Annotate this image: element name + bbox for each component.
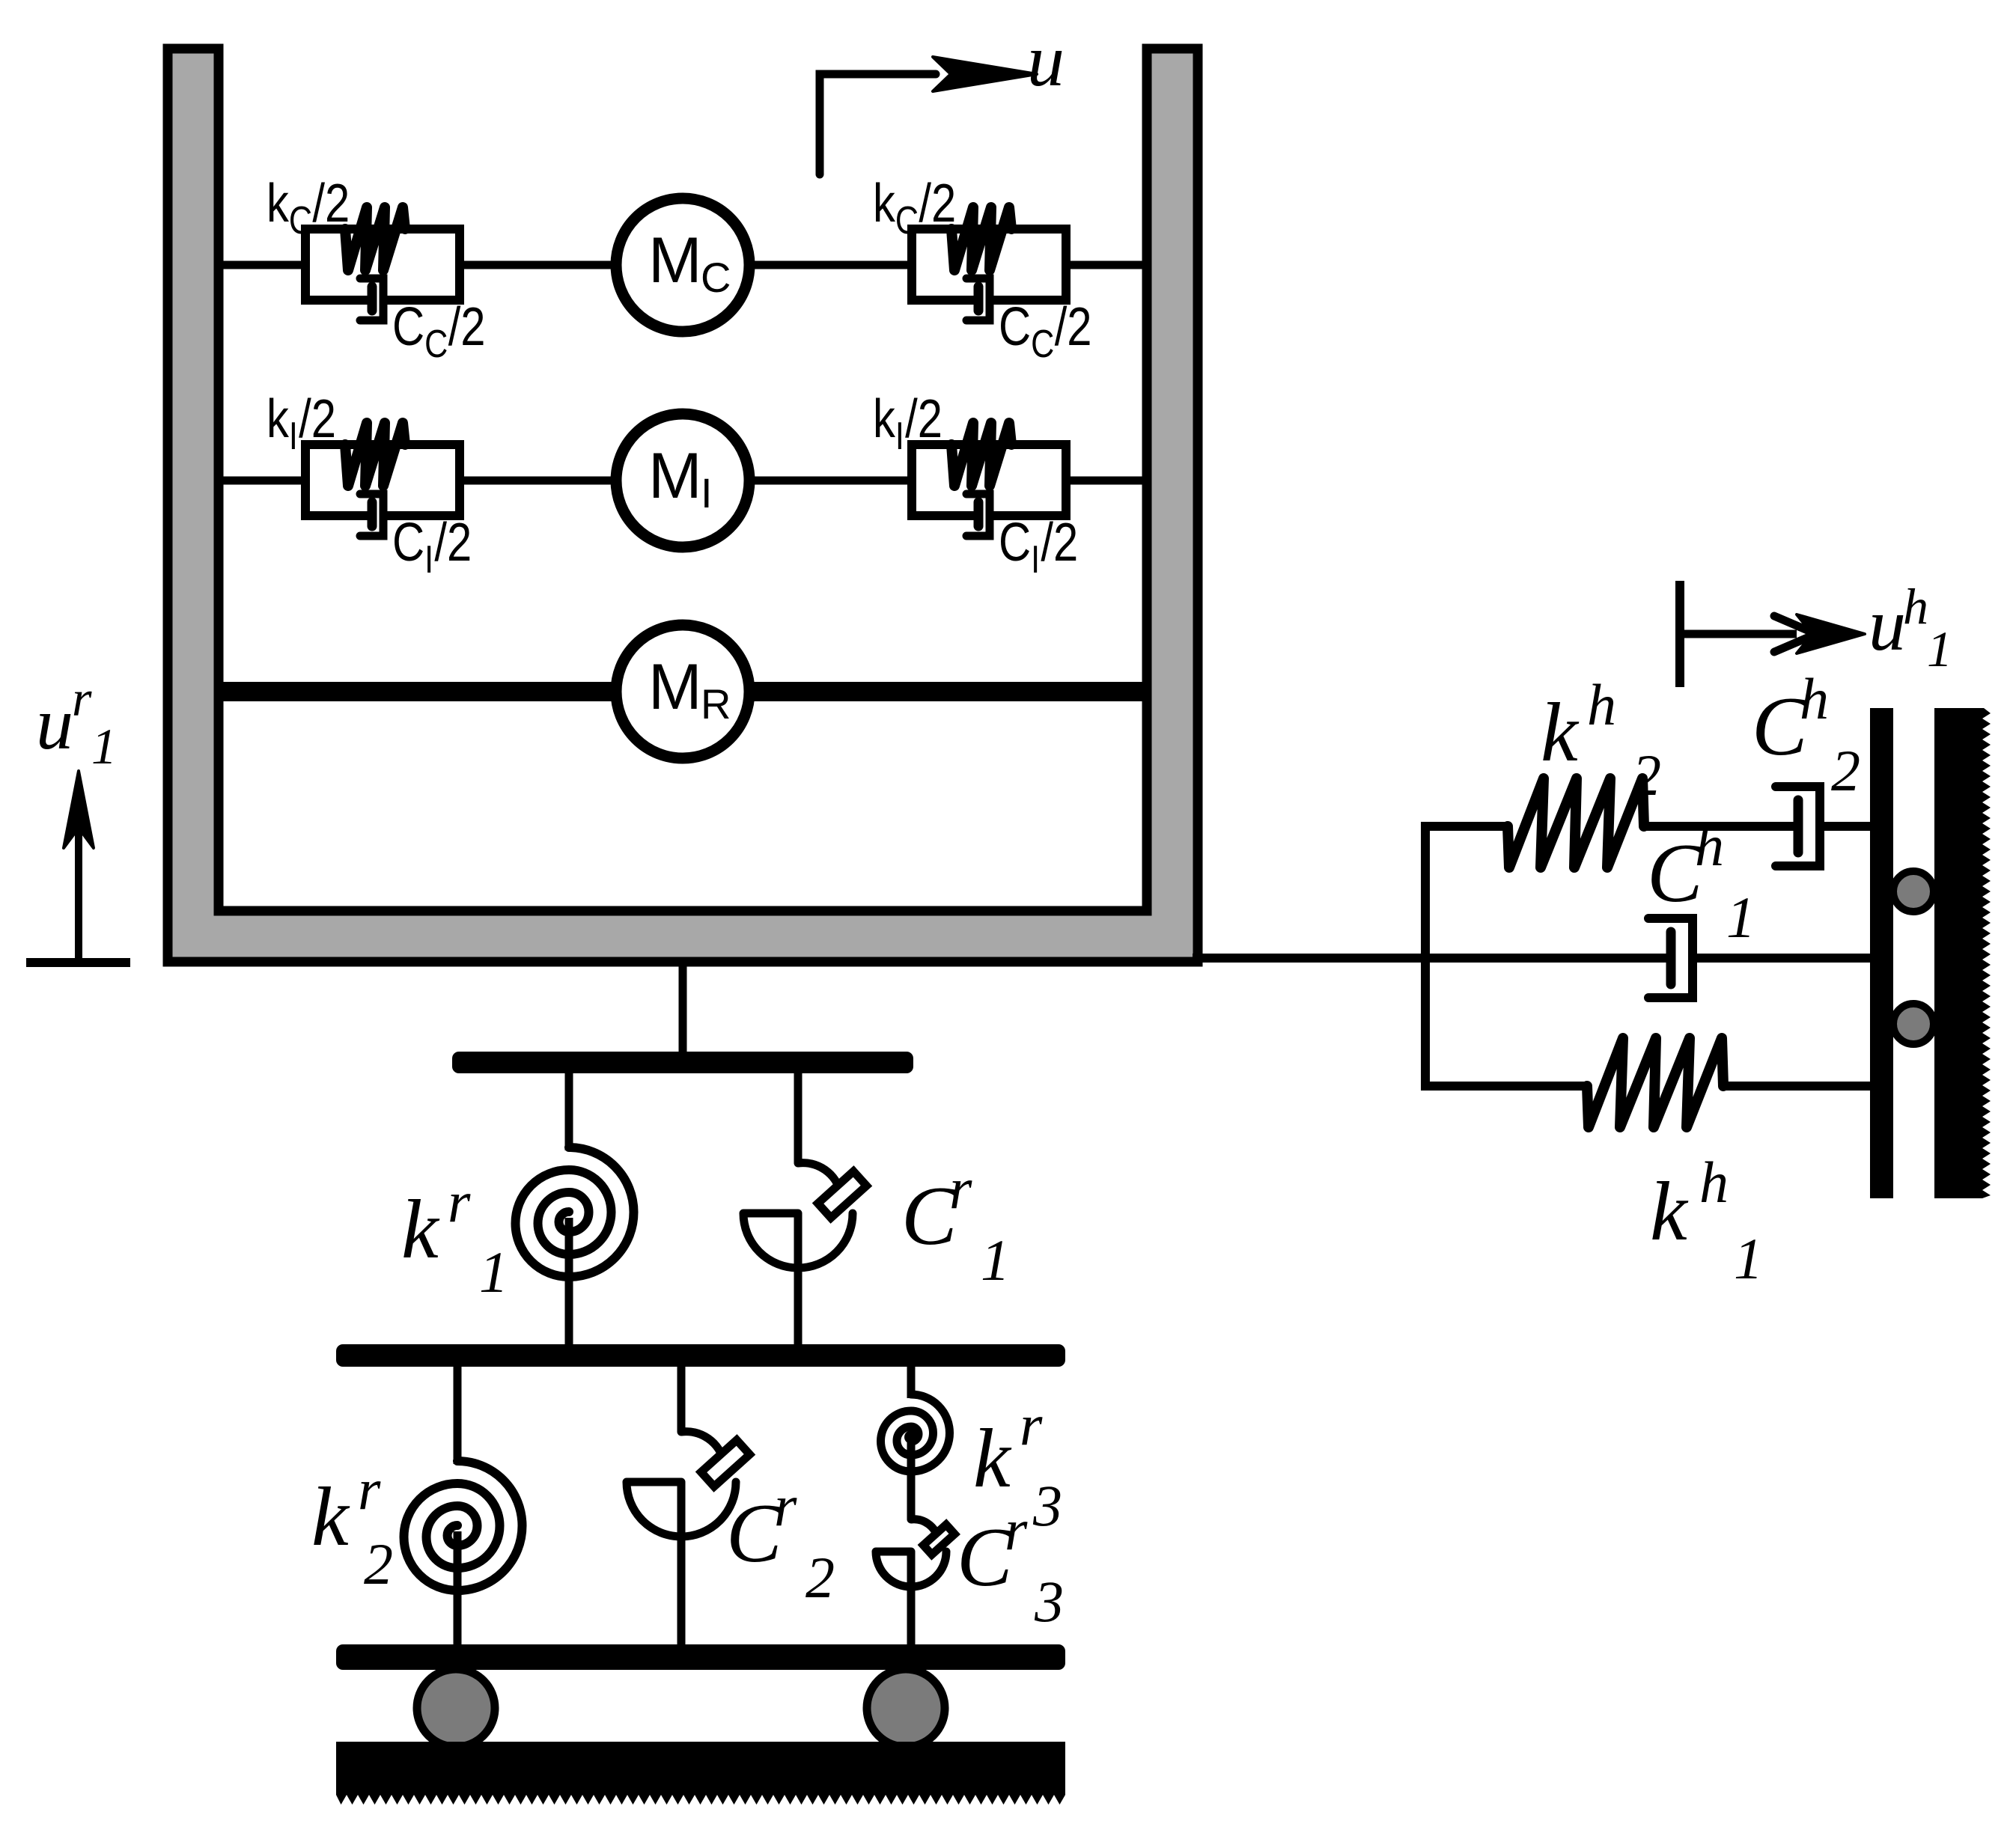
rigid link right (M_R row)	[746, 682, 1147, 701]
label kI/2	[873, 389, 942, 458]
svg-text:I: I	[424, 538, 433, 582]
svg-text:1: 1	[981, 1227, 1010, 1293]
stem tank to bar1	[679, 962, 687, 1055]
wire spiral k^r_2 to bar3	[454, 1531, 462, 1647]
svg-text:k: k	[873, 174, 896, 234]
svg-text:1: 1	[1734, 1226, 1763, 1291]
svg-text:M: M	[648, 651, 702, 723]
spring k^h_1	[1587, 1038, 1723, 1127]
svg-text:u: u	[36, 682, 73, 765]
rotational damper C^r_3	[911, 1519, 938, 1539]
svg-text:r: r	[448, 1169, 471, 1234]
wire MI to right box	[748, 477, 912, 485]
ground (hatched)	[336, 1742, 1065, 1805]
svg-text:M: M	[648, 440, 702, 512]
u^h_1 arrow	[1675, 581, 1684, 687]
svg-text:3: 3	[1034, 1569, 1064, 1634]
svg-text:1: 1	[479, 1239, 508, 1305]
svg-text:k: k	[1650, 1165, 1689, 1258]
roller lower (wall)	[1893, 1004, 1934, 1044]
label CI/2	[999, 513, 1078, 582]
svg-text:C: C	[999, 513, 1031, 573]
mass MI circle	[616, 414, 749, 547]
svg-text:r: r	[1005, 1497, 1028, 1562]
wire k^r_3 to C^r_3	[907, 1437, 916, 1519]
svg-text:2: 2	[806, 1545, 835, 1610]
wire bar1 to C^r_1	[794, 1070, 803, 1163]
svg-text:1: 1	[91, 718, 117, 775]
damper CI/2	[360, 494, 383, 536]
rotational spring k^r_2 (spiral)	[403, 1461, 522, 1591]
mass MR circle	[616, 625, 749, 758]
svg-text:r: r	[774, 1473, 797, 1538]
svg-text:r: r	[1020, 1392, 1043, 1457]
damper CI/2	[966, 494, 990, 536]
svg-text:2: 2	[364, 1531, 393, 1596]
svg-text:C: C	[1031, 323, 1054, 366]
rotational spring k^r_1 (spiral)	[516, 1147, 634, 1277]
rotational damper C^r_1	[798, 1163, 841, 1193]
wire right box to wall (row MC)	[1066, 261, 1147, 269]
u reference arrow	[820, 74, 936, 174]
rotational damper C^r_2	[681, 1432, 724, 1462]
svg-text:/2: /2	[1055, 297, 1092, 358]
wire C^r_2 to bar3	[677, 1537, 686, 1647]
wire left box to MI	[460, 477, 618, 485]
label kC/2	[267, 174, 350, 243]
wire bracket to spring k^h_2	[1421, 822, 1509, 831]
wire bar2 to k^r_2	[454, 1364, 462, 1464]
svg-text:k: k	[267, 174, 290, 234]
svg-text:u: u	[1869, 583, 1906, 666]
wire bracket to spring k^h_1	[1421, 1082, 1589, 1091]
svg-text:k: k	[401, 1183, 440, 1276]
svg-text:C: C	[392, 297, 424, 358]
svg-text:k: k	[1541, 686, 1580, 779]
svg-text:r: r	[949, 1156, 972, 1221]
wire spiral k^r_1 to bar2	[565, 1218, 573, 1347]
svg-text:h: h	[1903, 578, 1928, 635]
tank (gray U-shaped container)	[168, 49, 1198, 962]
damper C^h_1	[1648, 918, 1693, 998]
svg-text:2: 2	[1632, 742, 1661, 808]
wire tank to horizontal assembly	[1193, 954, 1671, 963]
fixed wall (hatched)	[1934, 708, 1991, 1198]
svg-text:/2: /2	[1041, 513, 1078, 573]
roller right	[867, 1669, 945, 1747]
svg-text:k: k	[267, 389, 290, 450]
wire damper C^h_1 to wall	[1693, 954, 1875, 963]
foundation wall (near)	[1870, 708, 1893, 1198]
svg-text:1: 1	[1726, 885, 1755, 950]
spring kI/2	[951, 423, 1011, 486]
spring kC/2	[951, 207, 1011, 270]
svg-text:C: C	[701, 254, 731, 301]
svg-text:C: C	[999, 297, 1031, 358]
svg-text:/2: /2	[448, 297, 486, 358]
wire wall to left box (row MI)	[219, 477, 305, 485]
wire spring k^h_1 to wall	[1723, 1082, 1875, 1091]
svg-text:I: I	[289, 415, 298, 458]
wire right box to wall (row MI)	[1066, 477, 1147, 485]
spring k^h_2	[1508, 778, 1644, 867]
mass MC circle	[616, 198, 749, 332]
wire left box to MC	[460, 261, 618, 269]
label CI/2	[392, 513, 472, 582]
svg-text:k: k	[873, 389, 896, 450]
bar 2 (rocking)	[336, 1344, 1065, 1367]
wire damper C^h_2 to wall	[1820, 822, 1875, 831]
svg-text:u: u	[1027, 19, 1065, 102]
damper C^h_2	[1776, 787, 1820, 866]
roller upper (wall)	[1893, 871, 1934, 912]
label kC/2	[873, 174, 956, 243]
svg-text:1: 1	[1927, 620, 1952, 677]
svg-text:R: R	[701, 680, 731, 728]
spring kC/2	[345, 207, 405, 270]
wire wall to left box (row MC)	[219, 261, 305, 269]
wire spring k^h_2 to damper C^h_2	[1644, 822, 1798, 831]
svg-text:h: h	[1800, 666, 1829, 731]
wire MC to right box	[748, 261, 912, 269]
svg-text:I: I	[895, 415, 904, 458]
roller left	[417, 1669, 495, 1747]
svg-text:C: C	[424, 323, 448, 366]
svg-text:k: k	[973, 1412, 1012, 1505]
spring-damper box (kI/2, CI/2)	[305, 445, 460, 516]
branch bracket vertical	[1421, 826, 1430, 1086]
svg-text:h: h	[1587, 672, 1616, 737]
rotational spring k^r_3 (spiral)	[881, 1394, 950, 1471]
svg-text:3: 3	[1032, 1473, 1062, 1538]
spring-damper box (kC/2, CC/2)	[912, 229, 1066, 300]
spring-damper box (kC/2, CC/2)	[305, 229, 460, 300]
svg-text:r: r	[72, 670, 92, 727]
svg-text:h: h	[1695, 813, 1724, 878]
label CC/2	[999, 297, 1092, 366]
svg-text:C: C	[392, 513, 424, 573]
wire bar1 to k^r_1 spiral	[565, 1070, 573, 1150]
u^r_1 arrow	[75, 793, 82, 963]
label CC/2	[392, 297, 486, 366]
wire C^r_3 to bar3	[907, 1587, 916, 1647]
svg-text:h: h	[1699, 1150, 1729, 1215]
wire C^r_1 to bar2	[794, 1268, 803, 1347]
damper CC/2	[360, 278, 383, 320]
damper CC/2	[966, 278, 990, 320]
u^r_1 base line	[26, 958, 130, 967]
svg-text:M: M	[648, 225, 702, 296]
spring-damper box (kI/2, CI/2)	[912, 445, 1066, 516]
spring kI/2	[345, 423, 405, 486]
wire bar2 to k^r_3	[907, 1364, 916, 1398]
wire bar2 to C^r_2	[677, 1364, 686, 1432]
svg-text:/2: /2	[434, 513, 472, 573]
rigid link left (M_R row)	[219, 682, 620, 701]
bar 3 (base)	[336, 1644, 1065, 1670]
svg-text:I: I	[701, 469, 713, 516]
label kI/2	[267, 389, 336, 458]
svg-text:r: r	[358, 1457, 381, 1522]
svg-text:k: k	[311, 1471, 350, 1564]
bar 1 (rocking)	[452, 1052, 913, 1073]
svg-text:I: I	[1031, 538, 1040, 582]
svg-text:2: 2	[1831, 738, 1860, 803]
